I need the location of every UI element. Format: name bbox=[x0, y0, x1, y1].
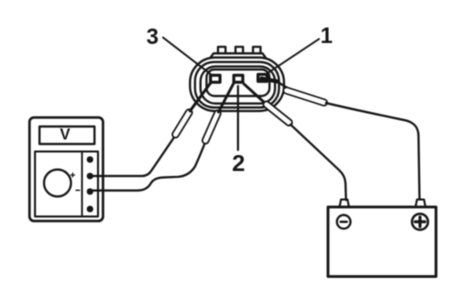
terminal pin 2 (center) bbox=[234, 75, 243, 82]
voltmeter selector dial bbox=[44, 170, 71, 197]
voltmeter jack strip divider bbox=[81, 152, 83, 217]
negative meter probe barrel bbox=[206, 114, 218, 141]
battery positive wire down to battery bbox=[326, 103, 420, 199]
battery negative probe tip touching pin 2 bbox=[244, 84, 266, 104]
battery negative probe barrel bbox=[267, 105, 290, 123]
svg-text:1: 1 bbox=[320, 23, 332, 48]
negative meter lead wire from jack 3 bbox=[90, 144, 205, 191]
connector housing outer shell bbox=[190, 58, 284, 112]
leader line from label 3 to pin 3 bbox=[163, 38, 211, 75]
voltmeter body bbox=[30, 118, 104, 222]
positive meter probe tip touching pin 3 bbox=[190, 83, 211, 111]
battery positive terminal post cup bbox=[416, 200, 426, 208]
voltmeter jack 3 bbox=[87, 188, 94, 195]
terminal pin 1 (right) bbox=[258, 74, 267, 81]
svg-text:2: 2 bbox=[232, 150, 245, 176]
battery negative terminal symbol bbox=[337, 215, 351, 229]
voltmeter jack 4 bbox=[87, 206, 94, 213]
battery positive terminal symbol bbox=[412, 214, 428, 230]
voltmeter front panel bbox=[35, 152, 98, 217]
voltmeter display window bbox=[40, 127, 95, 145]
connector lock tab center bbox=[236, 47, 244, 54]
connector shell second outline bbox=[195, 62, 279, 108]
leader line from label 1 to pin 1 bbox=[267, 39, 319, 74]
minus mark beside jack 3 bbox=[76, 189, 80, 191]
connector pin cavity bbox=[207, 70, 270, 97]
battery negative terminal post cup bbox=[340, 200, 350, 208]
battery negative wire down to battery bbox=[291, 125, 347, 201]
connector top plateau bbox=[211, 53, 266, 57]
connector shell third outline bbox=[201, 67, 276, 104]
terminal pin 3 (left) bbox=[211, 75, 221, 82]
svg-text:V: V bbox=[60, 127, 71, 144]
negative meter probe tip touching pin 2 bbox=[219, 84, 234, 113]
voltmeter jack 1 bbox=[87, 156, 94, 163]
positive meter probe barrel bbox=[176, 113, 190, 135]
battery case bbox=[328, 207, 436, 277]
connector lock tab right bbox=[253, 47, 261, 54]
leader line from label 2 to pin 2 bbox=[237, 86, 239, 150]
battery positive probe barrel bbox=[287, 91, 325, 103]
svg-text:3: 3 bbox=[146, 24, 158, 49]
plus mark beside jack 2 bbox=[71, 173, 75, 177]
battery positive probe tip touching pin 1 bbox=[262, 79, 278, 82]
positive meter lead wire from jack 2 bbox=[90, 136, 175, 176]
voltmeter jack 2 bbox=[87, 173, 94, 180]
connector lock tab left bbox=[218, 47, 226, 54]
